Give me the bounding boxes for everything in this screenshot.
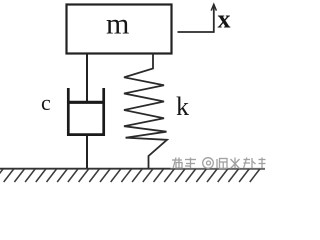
- ground hatching: [0, 169, 260, 182]
- mass block M: [67, 5, 172, 54]
- spring k: [124, 54, 167, 169]
- damper lower rod: [86, 136, 88, 169]
- svg-text:m: m: [106, 8, 129, 41]
- watermark halo: [171, 157, 268, 168]
- damper cylinder: [68, 88, 103, 135]
- svg-text:k: k: [176, 92, 189, 121]
- damper piston plate: [67, 101, 105, 104]
- svg-text:x: x: [218, 5, 231, 34]
- watermark "zhihu @user" simulated gray CJK text: [172, 158, 266, 169]
- ground line: [0, 168, 265, 170]
- x-axis arrowhead: [211, 4, 216, 10]
- watermark glyph 5: [244, 158, 256, 169]
- watermark glyph 3: [217, 159, 227, 169]
- watermark glyph 1: [172, 158, 182, 169]
- watermark glyph 4: [231, 158, 240, 169]
- x-axis arrow shaft: [213, 5, 215, 33]
- watermark glyph 6: [259, 158, 266, 169]
- watermark at-sign: [203, 158, 214, 169]
- svg-text:c: c: [41, 90, 51, 115]
- watermark glyph 2: [185, 158, 196, 169]
- damper upper rod: [86, 54, 88, 104]
- datum line (box to x-axis): [178, 31, 214, 33]
